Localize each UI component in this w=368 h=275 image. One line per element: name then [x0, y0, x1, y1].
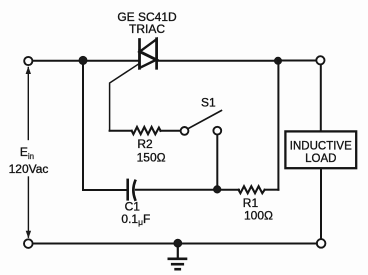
node: junction of middle rail and S1 branch	[214, 186, 221, 193]
wire: top rail, triac to R1 riser junction	[157, 60, 278, 62]
wire: gate to R2	[110, 130, 132, 132]
wire: R2 to switch contact	[160, 130, 180, 132]
svg-text:LOAD: LOAD	[305, 153, 336, 165]
label: R1	[243, 196, 259, 210]
ground	[169, 247, 186, 269]
svg-text:TRIAC: TRIAC	[129, 22, 165, 36]
node: junction of top rail and inner-left branch	[79, 56, 87, 64]
wire: top rail, junction to top-right terminal	[278, 60, 316, 62]
wire: middle rail, C1 to R1	[136, 189, 239, 191]
node: bottom-left input terminal	[24, 239, 33, 248]
label: LOAD	[305, 153, 336, 165]
node: bottom-right terminal	[317, 239, 326, 248]
label: 0.1uF	[121, 212, 150, 227]
resistor R2	[132, 127, 161, 134]
node: ground junction on bottom rail	[174, 239, 182, 247]
label: TRIAC	[129, 22, 165, 36]
wire: source arrow lower segment with down arrowhead	[26, 177, 31, 238]
wire: top rail, terminal to triac	[33, 60, 140, 62]
label: S1	[201, 96, 216, 110]
svg-text:S1: S1	[201, 96, 216, 110]
label: R2	[137, 137, 153, 151]
wire: bottom rail	[33, 243, 317, 245]
label: 100ohm	[244, 208, 273, 222]
triac U1 (GE SC41D)	[140, 39, 157, 69]
svg-text:Ein: Ein	[20, 145, 34, 161]
wire: source arrow upper segment with up arrowhead	[26, 66, 31, 139]
svg-text:100Ω: 100Ω	[244, 208, 273, 222]
label: 150ohm	[137, 150, 166, 164]
label: INDUCTIVE	[290, 140, 352, 152]
label: C1	[125, 200, 141, 214]
switch S1 left contact	[181, 127, 189, 135]
svg-text:R2: R2	[137, 137, 153, 151]
resistor R1	[239, 186, 265, 193]
wire: load down to bottom-right terminal	[320, 168, 322, 239]
wire: inner-left branch, junction down to C1	[82, 65, 84, 190]
svg-text:150Ω: 150Ω	[137, 150, 166, 164]
node: top-left input terminal	[24, 57, 32, 65]
svg-text:0.1μF: 0.1μF	[121, 212, 150, 227]
wire: top-right terminal down to load	[320, 65, 322, 132]
wire: S1 down to middle rail junction	[216, 135, 218, 186]
label: 120Vac	[9, 162, 49, 176]
switch S1 arm	[188, 111, 222, 129]
label: GE SC41D	[117, 10, 177, 24]
wire: triac gate lead	[110, 63, 140, 130]
wire: middle rail, left to C1	[83, 189, 126, 191]
switch S1 right contact	[213, 127, 221, 135]
svg-text:120Vac: 120Vac	[9, 162, 49, 176]
capacitor C1	[128, 180, 136, 200]
wire: R1 riser up to top rail	[277, 61, 279, 190]
node: junction of top rail and R1 riser	[275, 57, 282, 64]
wire: R1 to riser	[265, 189, 279, 191]
svg-text:INDUCTIVE: INDUCTIVE	[290, 140, 352, 152]
inductive load box	[285, 131, 356, 168]
node: top-right terminal	[316, 56, 324, 64]
label: Ein	[20, 145, 34, 161]
